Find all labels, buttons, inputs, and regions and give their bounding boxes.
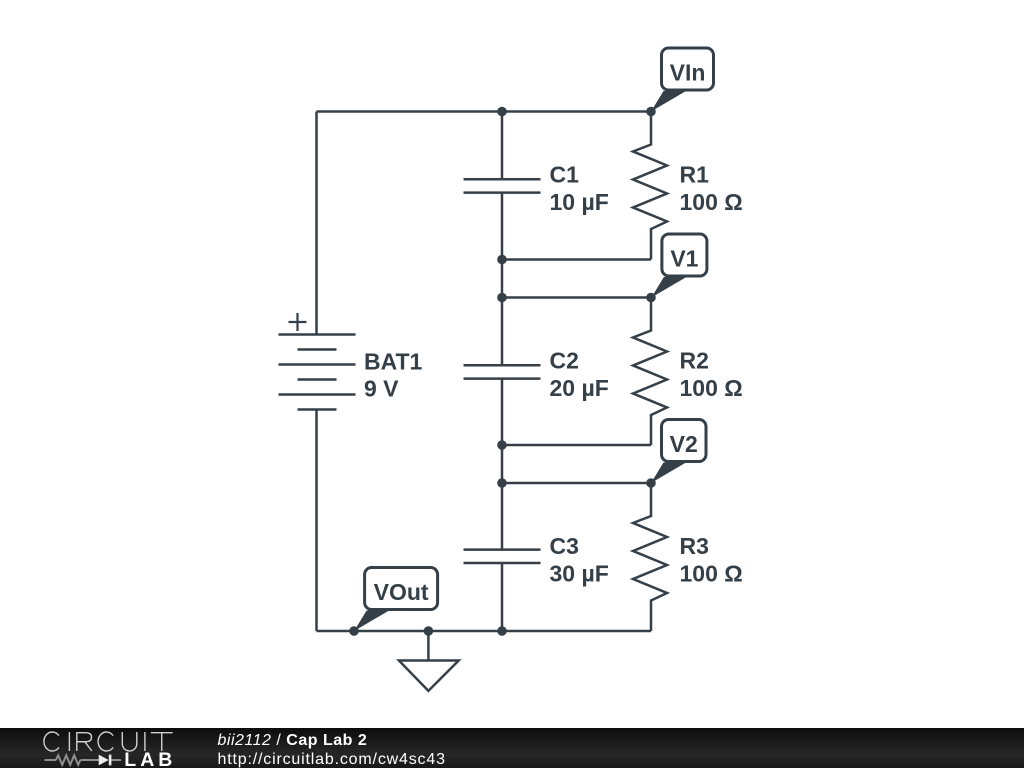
svg-text:V2: V2 [670,431,698,457]
svg-text:10 µF: 10 µF [550,189,609,215]
svg-text:R1: R1 [680,161,710,187]
svg-text:C2: C2 [550,347,579,373]
svg-text:VOut: VOut [374,579,429,605]
svg-text:V1: V1 [670,246,698,272]
svg-text:100 Ω: 100 Ω [680,375,743,401]
svg-text:VIn: VIn [670,60,706,86]
svg-text:C1: C1 [550,161,580,187]
svg-text:100 Ω: 100 Ω [680,561,743,587]
svg-text:R2: R2 [680,347,709,373]
svg-text:9 V: 9 V [364,376,399,402]
svg-text:BAT1: BAT1 [364,348,423,374]
svg-text:30 µF: 30 µF [550,561,609,587]
svg-text:C3: C3 [550,533,579,559]
svg-text:LAB: LAB [124,749,176,768]
svg-text:100 Ω: 100 Ω [680,189,743,215]
svg-text:20 µF: 20 µF [550,375,609,401]
svg-text:http://circuitlab.com/cw4sc43: http://circuitlab.com/cw4sc43 [218,751,446,768]
svg-text:bii2112 / Cap Lab 2: bii2112 / Cap Lab 2 [218,732,368,749]
svg-text:R3: R3 [680,533,709,559]
